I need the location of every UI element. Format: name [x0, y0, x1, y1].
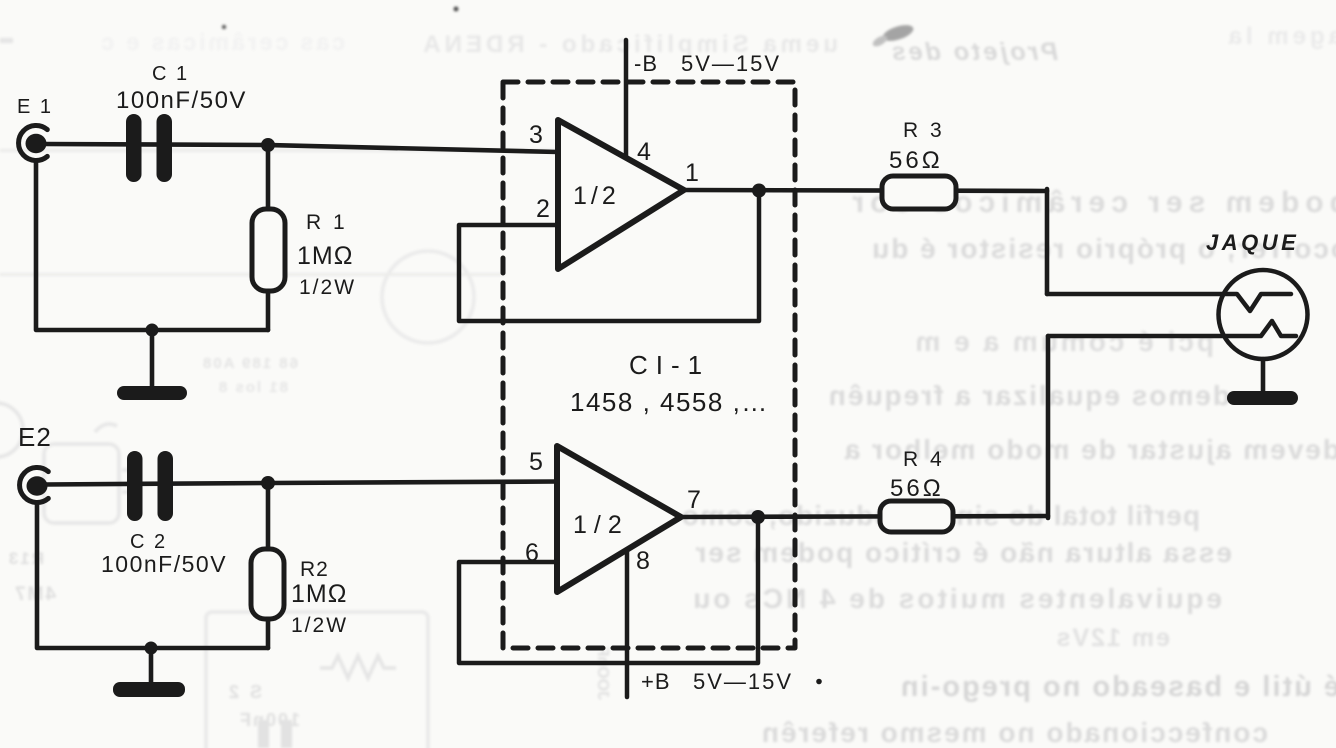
svg-text:JOOnF: JOOnF	[594, 646, 611, 700]
dashed IC boundary CI-1	[503, 82, 795, 648]
feedback wire U1b (pin6 to output)	[459, 519, 758, 663]
svg-text:1MΩ: 1MΩ	[291, 580, 347, 608]
svg-text:6: 6	[525, 539, 539, 567]
svg-text:E2: E2	[18, 422, 52, 452]
output wire U1a to R3	[684, 190, 1047, 191]
svg-text:em 12Vs: em 12Vs	[1055, 624, 1170, 652]
svg-text:5: 5	[529, 448, 543, 476]
svg-text:1/2W: 1/2W	[291, 614, 348, 637]
svg-text:CI-1: CI-1	[629, 350, 710, 380]
svg-text:E 1: E 1	[17, 96, 53, 118]
svg-text:1/2: 1/2	[573, 182, 620, 210]
bleed-through partial circle at left edge	[0, 403, 23, 457]
wire R4 up to jack sleeve (corner)	[1046, 336, 1051, 518]
svg-text:81 los 8: 81 los 8	[217, 379, 288, 396]
op-amp U1b triangle	[557, 446, 681, 592]
jack ground stem	[1261, 359, 1266, 392]
svg-text:demos equalizar a frequên: demos equalizar a frequên	[827, 380, 1230, 411]
svg-text:1/2W: 1/2W	[299, 276, 356, 299]
svg-text:100nF/50V: 100nF/50V	[116, 87, 247, 114]
stray ink dots	[222, 25, 226, 29]
node A junction dot	[261, 138, 275, 152]
supply line +B (pin 8)	[625, 552, 630, 697]
stray dot after +B label	[816, 679, 822, 685]
input jack E2 (center pin)	[27, 476, 48, 496]
svg-text:3: 3	[529, 121, 543, 149]
svg-text:7: 7	[687, 486, 701, 514]
wire E2 to node D	[45, 483, 268, 485]
capacitor C2 plate right	[158, 451, 174, 521]
wire R3 to jack tip (corner)	[1045, 189, 1050, 294]
svg-text:1458 , 4558 ,…: 1458 , 4558 ,…	[570, 387, 769, 417]
wire R1 bottom to ground rail	[266, 291, 271, 330]
svg-text:56Ω: 56Ω	[889, 147, 943, 174]
svg-text:R 1: R 1	[306, 211, 348, 234]
op-amp U1a triangle	[558, 120, 684, 269]
ground bar symbol (E1 rail)	[117, 386, 187, 400]
svg-text:cas cerâmicas e c: cas cerâmicas e c	[98, 29, 345, 55]
svg-text:S 2: S 2	[226, 682, 262, 702]
svg-text:+B: +B	[641, 669, 671, 694]
wire node D down to R2	[266, 483, 271, 549]
node B junction dot (ground rail)	[146, 324, 159, 337]
svg-text:equivalentes muitos de 4 NCs o: equivalentes muitos de 4 NCs ou	[690, 583, 1222, 614]
capacitor C1 plate left	[126, 114, 142, 182]
svg-text:1: 1	[685, 159, 699, 187]
ground bar symbol (E2 rail)	[113, 682, 185, 697]
input jack E1 (outer arc)	[19, 126, 48, 161]
svg-text:agem la: agem la	[1225, 23, 1336, 50]
svg-text:pci é comum a e m: pci é comum a e m	[912, 326, 1214, 357]
svg-text:R2: R2	[300, 558, 329, 581]
scan artifact faint lines	[0, 149, 560, 152]
bleed-through resistor zigzag (reverse page)	[320, 656, 396, 678]
resistor R1 body	[252, 209, 285, 291]
svg-text:100nF/50V: 100nF/50V	[101, 551, 227, 577]
ground stem (E2 rail)	[149, 648, 154, 683]
svg-text:5V—15V: 5V—15V	[681, 51, 781, 76]
resistor R3 body	[882, 176, 956, 209]
svg-text:4M7: 4M7	[13, 584, 56, 605]
wire node A down to R1	[266, 146, 271, 209]
jack ground bar symbol	[1227, 391, 1298, 405]
wire E1 to node A	[44, 144, 268, 145]
svg-text:confeccionado no mesmo referên: confeccionado no mesmo referên	[760, 717, 1268, 748]
resistor R4 body	[880, 501, 953, 532]
wire node D to op-amp pin 5	[268, 482, 557, 484]
svg-text:Projeto des: Projeto des	[889, 38, 1058, 66]
svg-text:4: 4	[637, 138, 651, 166]
bleed-through small dash far left	[0, 38, 13, 43]
svg-text:1/2: 1/2	[573, 511, 629, 539]
ground stem (E1 rail)	[150, 330, 155, 387]
jack tip line with contact notch	[1047, 294, 1291, 311]
svg-text:8: 8	[636, 547, 650, 575]
output jack JAQUE circle	[1219, 270, 1308, 359]
jack sleeve line with contact notch	[1048, 321, 1296, 336]
svg-text:1MΩ: 1MΩ	[297, 242, 353, 270]
output wire U1b to R4	[681, 516, 1048, 517]
svg-text:essa altura não é crítico pode: essa altura não é crítico podem ser	[694, 537, 1232, 568]
wire E1 down and ground rail	[36, 162, 268, 330]
resistor R2 body	[251, 549, 284, 619]
svg-text:2: 2	[536, 195, 550, 223]
wire node A to op-amp pin 3	[268, 145, 558, 152]
wire R2 bottom to ground rail	[266, 619, 271, 648]
svg-text:JAQUE: JAQUE	[1206, 230, 1299, 255]
svg-text:R 3: R 3	[903, 119, 945, 142]
supply line -B (pin 4)	[624, 40, 629, 157]
bleed-through rounded rectangle (reverse-page component)	[44, 444, 119, 523]
node E junction dot (E2 ground rail)	[145, 642, 158, 655]
input jack E2 (outer arc)	[20, 468, 49, 503]
svg-text:R 4: R 4	[903, 448, 945, 471]
svg-text:56Ω: 56Ω	[890, 475, 944, 502]
node C junction dot (U1a output)	[752, 184, 766, 198]
svg-text:é útil e baseado no prego-in: é útil e baseado no prego-in	[899, 671, 1336, 703]
feedback wire U1a (pin2 to output)	[459, 192, 759, 321]
svg-text:C 1: C 1	[152, 63, 189, 85]
svg-text:5V—15V: 5V—15V	[693, 669, 793, 694]
capacitor C1 plate right	[157, 114, 173, 182]
capacitor C2 plate left	[127, 451, 143, 521]
input jack E1 (center pin)	[26, 134, 47, 154]
bleed-through ink smudge	[881, 22, 915, 44]
node D junction dot	[261, 476, 275, 490]
bleed-through circle (reverse-page jack symbol)	[382, 251, 474, 343]
bleed-through large rectangle (reverse-page block)	[206, 612, 428, 748]
wire E2 down and ground rail	[37, 504, 268, 648]
svg-text:68 189 A08: 68 189 A08	[201, 355, 298, 372]
svg-text:-B: -B	[634, 51, 658, 76]
svg-text:C 2: C 2	[130, 531, 167, 553]
node F junction dot (U1b output)	[751, 510, 765, 524]
